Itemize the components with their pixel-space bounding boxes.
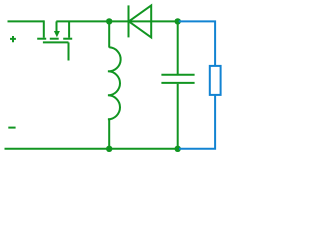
transistor Q1 (MOSFET) xyxy=(37,20,72,60)
node A junction dot xyxy=(106,18,112,24)
resistor R1 (load, box symbol) xyxy=(210,66,221,95)
source lead down xyxy=(68,21,70,37)
wire top-left input to transistor drain xyxy=(8,20,44,22)
junction dot capacitor bottom xyxy=(175,146,181,152)
bulk channel dash xyxy=(50,38,59,40)
drain channel dash xyxy=(37,38,46,40)
junction dot inductor bottom xyxy=(106,146,112,152)
triangle xyxy=(129,5,151,37)
inductor L1 xyxy=(108,21,121,148)
bottom rail wire (green) xyxy=(5,148,178,150)
source channel dash xyxy=(63,38,72,40)
wire transistor source through node A to diode and node B xyxy=(56,20,177,22)
wire node B to load (blue, top) xyxy=(179,21,215,66)
gate plate xyxy=(43,41,69,43)
bulk arrow head xyxy=(54,31,60,37)
plus terminal label xyxy=(10,36,16,42)
drain lead down xyxy=(43,20,45,37)
capacitor C1 xyxy=(161,21,194,148)
cathode bar xyxy=(128,5,130,37)
diode D1 xyxy=(129,5,152,37)
bottom plate xyxy=(161,82,194,84)
coil arcs xyxy=(108,47,121,119)
minus terminal label xyxy=(8,127,15,129)
bulk arrow line xyxy=(56,21,58,31)
wire node B down to top plate xyxy=(177,21,179,74)
wire coil to bottom rail xyxy=(108,119,110,149)
wire resistor bottom to capacitor bottom (blue) xyxy=(179,95,215,149)
wire node A down to coil xyxy=(108,21,110,47)
gate lead xyxy=(68,42,70,60)
wire bottom plate to bottom rail xyxy=(177,84,179,149)
node B junction dot xyxy=(175,18,181,24)
top plate xyxy=(161,74,194,76)
